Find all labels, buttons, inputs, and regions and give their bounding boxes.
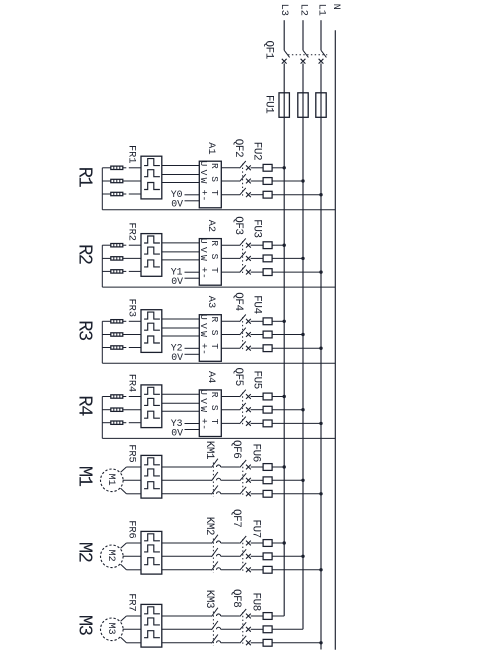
thermal relay FR6 element 3 (144, 558, 160, 565)
wire FR3 to A3 conductor U (162, 318, 200, 320)
resistor R2 heating element 3 (111, 270, 123, 273)
contactor KM3 pole 2 blade (212, 621, 218, 630)
junction M3 phase 3 to L1 (319, 641, 322, 644)
junction phase 1 to L3 (283, 395, 286, 398)
breaker QF4 pole 3 blade (240, 341, 246, 348)
wire FU5 to rail phase 2 (272, 409, 303, 411)
breaker QF7 linkage (dotted) (242, 539, 244, 573)
breaker QF3 pole 2 contact X (246, 256, 251, 261)
svg-text:R4: R4 (73, 395, 95, 416)
wire rail L3 mid (283, 63, 285, 117)
fuse FU2 element 1 (263, 164, 272, 171)
wire R4 heater lead 2b (123, 409, 141, 411)
svg-text:U: U (198, 314, 209, 320)
junction M1 phase 3 to L1 (319, 492, 322, 495)
wire rail L2 mid (302, 63, 304, 117)
fuse FU4 element 1 (263, 318, 272, 325)
breaker QF5 linkage (dotted) (242, 393, 244, 427)
thermal relay FR7 element 1 (144, 607, 160, 614)
breaker QF7 pole 1 contact X (246, 541, 251, 546)
wire QF3 to FU3 phase 3 (251, 271, 264, 273)
node R1 star bus (101, 168, 103, 210)
wire QF4 to FU4 phase 3 (251, 347, 264, 349)
fuse FU6 element 1 (263, 464, 272, 471)
node R2 star bus (101, 245, 103, 287)
svg-text:M2: M2 (73, 542, 95, 563)
wire QF7 to FU7 phase 1 (251, 542, 263, 544)
wire FR2 to A2 conductor U (162, 242, 200, 244)
fuse FU5 element 2 (263, 406, 272, 413)
thermal relay FR1 element 2 (144, 170, 160, 177)
resistor R1 heating element 2 (111, 179, 123, 182)
wire A4 to QF5 phase 3 (221, 422, 239, 424)
contactor KM3 pole 3 contact arc (217, 641, 221, 643)
wire QF7 to FU7 phase 3 (251, 569, 263, 571)
svg-text:W: W (198, 255, 209, 261)
svg-text:KM2: KM2 (203, 517, 215, 535)
fuse FU1 element 2 (298, 93, 308, 118)
motor M1 circle (101, 469, 124, 492)
wire FR5 to KM1 phase 1 (162, 466, 212, 468)
svg-text:KM3: KM3 (203, 590, 215, 608)
breaker QF8 pole 1 contact X (246, 614, 251, 619)
svg-text:M3: M3 (73, 615, 95, 636)
wire FR4 to A4 conductor U (162, 393, 200, 395)
wire FU3 to rail phase 2 (272, 257, 303, 259)
fuse FU3 element 2 (263, 255, 272, 262)
wire rail N (334, 30, 336, 650)
fuse FU6 element 2 (263, 477, 272, 484)
wire KM2 to QF7 phase 2 (221, 555, 240, 557)
breaker QF1 linkage (dotted) (288, 54, 327, 56)
wire FR1 to A1 conductor U (162, 165, 200, 167)
wire KM3 to QF8 phase 1 (221, 615, 240, 617)
thermal relay FR1 element 1 (144, 159, 160, 166)
contactor KM2 pole 3 contact arc (217, 568, 221, 570)
contactor KM2 pole 3 blade (212, 562, 218, 571)
wire R2 heater lead 2a (102, 257, 111, 259)
thermal relay FR5 element 2 (144, 469, 160, 476)
wire QF6 to FU6 phase 3 (251, 493, 263, 495)
svg-text:QF8: QF8 (230, 589, 242, 607)
thermal relay FR7 box (141, 604, 162, 647)
wire FU6 to rail phase 3 (272, 493, 321, 495)
wire FU6 to rail phase 1 (272, 466, 284, 468)
wire R2 neutral return (102, 286, 335, 288)
controller A2 box (199, 239, 221, 286)
breaker QF8 linkage (dotted) (242, 612, 244, 646)
thermal relay FR1 element 3 (144, 183, 160, 190)
wire FR4 to A4 conductor W (162, 410, 200, 412)
wire A4 to QF5 phase 2 (221, 409, 239, 411)
breaker QF3 pole 2 blade (240, 252, 246, 259)
svg-text:QF7: QF7 (230, 509, 242, 527)
wire FR7 to KM3 phase 2 (162, 628, 212, 630)
svg-text:T: T (209, 343, 220, 349)
svg-text:R: R (209, 240, 220, 246)
wire FR1 to A1 conductor W (162, 182, 200, 184)
svg-text:FR2: FR2 (125, 222, 137, 241)
wire QF8 to FU8 phase 2 (251, 628, 263, 630)
contactor KM3 pole 1 contact arc (217, 614, 221, 616)
wire FU7 to rail phase 1 (272, 542, 284, 544)
wire FU2 to rail phase 1 (272, 167, 284, 169)
svg-text:T: T (209, 267, 220, 273)
wire QF5 to FU5 phase 1 (251, 396, 264, 398)
wire A1 to QF2 phase 2 (221, 180, 239, 182)
svg-text:0V: 0V (171, 352, 183, 363)
wire M1 phase 3 diagonal (121, 488, 127, 494)
resistor R1 heating element 3 (111, 192, 123, 195)
fuse FU2 element 2 (263, 178, 272, 185)
fuse FU5 element 1 (263, 393, 272, 400)
wire Y2 control (185, 347, 200, 349)
svg-text:W: W (198, 178, 209, 184)
svg-text:R1: R1 (73, 167, 95, 188)
wire FR7 to KM3 phase 3 (162, 642, 212, 644)
contactor KM2 pole 2 blade (212, 548, 218, 557)
contactor KM1 pole 2 contact arc (217, 478, 221, 480)
breaker QF7 pole 1 blade (240, 536, 246, 543)
breaker QF4 pole 2 contact X (246, 332, 251, 337)
svg-text:KM1: KM1 (203, 441, 215, 460)
svg-text:FU2: FU2 (251, 142, 263, 160)
thermal relay FR3 element 2 (144, 323, 160, 330)
svg-text:QF2: QF2 (232, 139, 244, 157)
svg-text:S: S (209, 254, 220, 260)
svg-text:N: N (330, 4, 342, 10)
wire A3 to QF4 phase 1 (221, 320, 239, 322)
contactor KM3 linkage (dotted) (212, 612, 214, 647)
svg-text:R2: R2 (73, 244, 95, 265)
motor M3 circle (101, 618, 124, 641)
wire 0V control (185, 200, 200, 202)
wire FU3 to rail phase 3 (272, 271, 321, 273)
svg-text:FR7: FR7 (125, 593, 137, 612)
fuse FU8 element 3 (263, 639, 272, 646)
wire KM1 to QF6 phase 2 (221, 479, 240, 481)
wire FU8 to rail phase 3 (272, 642, 321, 644)
wire rail L1 upper (320, 20, 322, 50)
svg-text:FU5: FU5 (251, 371, 263, 389)
svg-text:U: U (198, 161, 209, 167)
wire FR3 to A3 conductor V (162, 327, 200, 329)
svg-text:T: T (209, 419, 220, 425)
contactor KM1 linkage (dotted) (212, 463, 214, 498)
wire M1 phase 2 (123, 479, 141, 481)
contactor KM1 pole 3 blade (212, 486, 218, 495)
wire A1 to QF2 phase 3 (221, 194, 239, 196)
wire QF5 to FU5 phase 3 (251, 422, 264, 424)
thermal relay FR6 element 1 (144, 534, 160, 541)
breaker QF5 pole 3 blade (240, 417, 246, 424)
wire FU6 to rail phase 2 (272, 479, 303, 481)
wire FR5 to KM1 phase 2 (162, 479, 212, 481)
svg-text:M1: M1 (73, 466, 95, 487)
wire FU4 to rail phase 1 (272, 320, 284, 322)
wire rail L2 lower (302, 117, 304, 629)
thermal relay FR7 element 2 (144, 618, 160, 625)
junction phase 3 to L1 (319, 193, 322, 196)
junction phase 1 to L3 (283, 320, 286, 323)
wire R4 heater lead 1b (123, 396, 127, 398)
thermal relay FR6 element 2 (144, 545, 160, 552)
svg-text:S: S (209, 405, 220, 411)
wire FR3 to A3 conductor W (162, 335, 200, 337)
fuse FU3 element 3 (263, 269, 272, 276)
breaker QF5 pole 2 contact X (246, 407, 251, 412)
wire QF4 to FU4 phase 1 (251, 320, 264, 322)
wire FU4 to rail phase 2 (272, 334, 303, 336)
wire 0V control (185, 429, 200, 431)
wire R1 heater lead 1a (102, 167, 111, 169)
breaker QF2 pole 3 blade (240, 188, 246, 195)
svg-text:0V: 0V (171, 276, 183, 287)
wire R3 heater lead 3a (102, 347, 111, 349)
breaker QF5 pole 1 blade (240, 390, 246, 397)
svg-text:FR5: FR5 (125, 444, 137, 463)
junction phase 2 to L2 (301, 333, 304, 336)
wire FU2 to rail phase 3 (272, 194, 321, 196)
breaker QF8 pole 3 blade (240, 636, 246, 643)
wire FU3 to rail phase 1 (272, 244, 284, 246)
fuse FU3 element 1 (263, 242, 272, 249)
fuse FU6 element 3 (263, 490, 272, 497)
wire rail L3 upper (283, 20, 285, 50)
wire R3 heater lead 3b (123, 347, 127, 349)
junction M2 phase 3 to L1 (319, 568, 322, 571)
wire QF8 to FU8 phase 3 (251, 642, 263, 644)
svg-text:FU8: FU8 (249, 593, 261, 611)
junction M1 phase 2 to L2 (301, 479, 304, 482)
wire 0V control (185, 353, 200, 355)
wire QF8 to FU8 phase 1 (251, 615, 263, 617)
svg-text:M3: M3 (105, 623, 116, 635)
svg-text:FU4: FU4 (251, 295, 263, 313)
wire M2 phase 3 diagonal (121, 564, 127, 570)
svg-text:M1: M1 (105, 474, 116, 486)
breaker QF2 pole 3 contact X (246, 192, 251, 197)
breaker QF6 pole 1 blade (240, 460, 246, 467)
breaker QF8 pole 2 blade (240, 622, 246, 629)
breaker QF6 linkage (dotted) (242, 463, 244, 497)
wire KM3 to QF8 phase 2 (221, 628, 240, 630)
wire FR2 to A2 conductor V (162, 251, 200, 253)
svg-text:S: S (209, 330, 220, 336)
wire rail L1 mid (320, 63, 322, 117)
fuse FU7 element 3 (263, 566, 272, 573)
breaker QF1 pole 3 blade (321, 50, 326, 57)
breaker QF1 pole 2 contact X (301, 59, 306, 64)
breaker QF4 linkage (dotted) (242, 317, 244, 351)
svg-text:T: T (209, 190, 220, 196)
svg-text:A1: A1 (205, 142, 217, 154)
fuse FU1 element 3 (316, 93, 326, 118)
thermal relay FR6 box (141, 531, 162, 574)
resistor R4 heating element 2 (111, 408, 123, 411)
thermal relay FR4 element 3 (144, 411, 160, 418)
svg-text:QF3: QF3 (232, 216, 244, 234)
fuse FU5 element 3 (263, 420, 272, 427)
resistor R1 heating element 1 (111, 166, 123, 169)
thermal relay FR5 element 1 (144, 458, 160, 465)
wire KM3 to QF8 phase 3 (221, 642, 240, 644)
wire FR6 to KM2 phase 1 (162, 542, 212, 544)
fuse FU2 element 3 (263, 191, 272, 198)
motor M2 circle (101, 545, 124, 568)
wire M3 phase 3 diagonal (121, 637, 127, 643)
wire Y3 control (185, 423, 200, 425)
svg-text:FR3: FR3 (125, 299, 137, 318)
svg-text:W: W (198, 331, 209, 337)
thermal relay FR4 box (141, 385, 162, 428)
contactor KM2 linkage (dotted) (212, 539, 214, 574)
wire A2 to QF3 phase 2 (221, 257, 239, 259)
svg-text:R: R (209, 317, 220, 323)
controller A4 box (199, 390, 221, 437)
svg-text:V: V (198, 170, 209, 176)
breaker QF5 pole 2 blade (240, 403, 246, 410)
junction phase 1 to L3 (283, 166, 286, 169)
junction M1 phase 1 to L3 (283, 465, 286, 468)
wire FU7 to rail phase 2 (272, 555, 303, 557)
wire KM1 to QF6 phase 1 (221, 466, 240, 468)
breaker QF4 pole 2 blade (240, 328, 246, 335)
wire FU5 to rail phase 1 (272, 396, 284, 398)
breaker QF2 pole 2 blade (240, 174, 246, 181)
breaker QF4 pole 3 contact X (246, 346, 251, 351)
fuse FU7 element 2 (263, 553, 272, 560)
wire M1 phase 3 (126, 493, 141, 495)
wire FR2 to A2 conductor W (162, 259, 200, 261)
resistor R3 heating element 1 (111, 320, 123, 323)
junction phase 2 to L2 (301, 257, 304, 260)
wire QF6 to FU6 phase 1 (251, 466, 263, 468)
thermal relay FR2 element 3 (144, 260, 160, 267)
wire R3 heater lead 1b (123, 320, 127, 322)
wire R4 heater lead 2a (102, 409, 111, 411)
svg-text:QF5: QF5 (232, 368, 244, 386)
wire M1 phase 1 (126, 466, 141, 468)
svg-text:FR6: FR6 (125, 520, 137, 539)
svg-text:-: - (198, 424, 209, 430)
svg-text:S: S (209, 176, 220, 182)
breaker QF2 pole 2 contact X (246, 179, 251, 184)
wire KM2 to QF7 phase 3 (221, 569, 240, 571)
breaker QF6 pole 2 contact X (246, 478, 251, 483)
wire A3 to QF4 phase 2 (221, 334, 239, 336)
node R3 star bus (101, 321, 103, 363)
wire R4 heater lead 3b (123, 422, 127, 424)
thermal relay FR7 element 3 (144, 631, 160, 638)
resistor R2 heating element 1 (111, 244, 123, 247)
breaker QF7 pole 3 blade (240, 563, 246, 570)
breaker QF3 pole 3 blade (240, 265, 246, 272)
contactor KM2 pole 1 contact arc (217, 541, 221, 543)
svg-text:U: U (198, 389, 209, 395)
wire R1 heater lead 2a (102, 180, 111, 182)
contactor KM3 pole 1 blade (212, 608, 218, 617)
wire R1 heater lead 1b (123, 167, 127, 169)
thermal relay FR2 element 1 (144, 236, 160, 243)
wire R4 heater lead 1a (102, 396, 111, 398)
wire QF3 to FU3 phase 1 (251, 244, 264, 246)
wire R1 heater lead 3b (123, 193, 127, 195)
svg-text:-: - (198, 196, 209, 202)
fuse FU4 element 2 (263, 331, 272, 338)
thermal relay FR3 element 1 (144, 312, 160, 319)
svg-text:A4: A4 (205, 371, 217, 383)
controller A1 box (199, 161, 221, 208)
wire R1 heater lead 3a (102, 193, 111, 195)
wire Y1 control (185, 271, 200, 273)
svg-text:FR4: FR4 (125, 374, 137, 393)
wire QF5 to FU5 phase 2 (251, 409, 264, 411)
breaker QF6 pole 2 blade (240, 473, 246, 480)
breaker QF3 pole 3 contact X (246, 270, 251, 275)
breaker QF8 pole 2 contact X (246, 627, 251, 632)
wire R1 neutral return (102, 209, 335, 211)
wire 0V control (185, 277, 200, 279)
wire M2 phase 1 (126, 542, 141, 544)
contactor KM1 pole 3 contact arc (217, 492, 221, 494)
svg-text:R: R (209, 163, 220, 169)
wire R2 heater lead 1b (123, 244, 127, 246)
wire R2 heater lead 3b (123, 270, 127, 272)
thermal relay FR1 box (141, 156, 162, 199)
svg-text:V: V (198, 323, 209, 329)
breaker QF3 pole 1 blade (240, 238, 246, 245)
wire M3 phase 2 (123, 628, 141, 630)
wire FR6 to KM2 phase 2 (162, 555, 212, 557)
svg-text:L1: L1 (316, 4, 328, 16)
svg-text:A3: A3 (205, 296, 217, 308)
fuse FU8 element 1 (263, 613, 272, 620)
wire R3 heater lead 2b (123, 334, 141, 336)
wire rail L2 upper (302, 20, 304, 50)
wire KM1 to QF6 phase 3 (221, 493, 240, 495)
svg-text:FU3: FU3 (251, 219, 263, 237)
wire A1 to QF2 phase 1 (221, 167, 239, 169)
wire FU2 to rail phase 2 (272, 180, 303, 182)
svg-text:QF6: QF6 (230, 440, 242, 458)
fuse FU8 element 2 (263, 626, 272, 633)
breaker QF2 pole 1 contact X (246, 165, 251, 170)
contactor KM1 pole 1 blade (212, 459, 218, 468)
wire A2 to QF3 phase 1 (221, 244, 239, 246)
wire M3 phase 3 (126, 642, 141, 644)
wire M2 phase 1 diagonal (121, 543, 127, 548)
thermal relay FR5 element 3 (144, 482, 160, 489)
contactor KM2 pole 2 contact arc (217, 554, 221, 556)
junction phase 3 to L1 (319, 347, 322, 350)
wire FR7 to KM3 phase 1 (162, 615, 212, 617)
wire FU8 to rail phase 1 (L3 corner) (272, 615, 284, 617)
wire QF2 to FU2 phase 2 (251, 180, 264, 182)
wire R2 heater lead 1a (102, 244, 111, 246)
resistor R2 heating element 2 (111, 257, 123, 260)
wire R4 neutral return (102, 437, 335, 439)
svg-text:L2: L2 (298, 4, 310, 16)
breaker QF5 pole 1 contact X (246, 394, 251, 399)
breaker QF7 pole 2 blade (240, 549, 246, 556)
wire QF2 to FU2 phase 1 (251, 167, 264, 169)
controller A3 box (199, 315, 221, 362)
svg-text:L3: L3 (278, 4, 290, 16)
thermal relay FR3 box (141, 310, 162, 353)
fuse FU7 element 1 (263, 540, 272, 547)
breaker QF3 linkage (dotted) (242, 241, 244, 275)
